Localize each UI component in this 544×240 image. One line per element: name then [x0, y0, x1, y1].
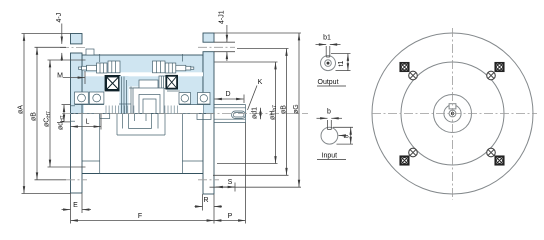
output ball bearing 1 [179, 93, 191, 105]
input ball bearing 2 [75, 92, 104, 105]
dimension øH h7 [215, 62, 279, 164]
small roller bearing beside right key [159, 76, 166, 89]
lower half: output bearing hub [197, 114, 211, 120]
label Input [317, 153, 346, 160]
right flange plate øG (sectioned, blue, with bolt hole gap) [203, 33, 214, 114]
svg-text:S: S [228, 179, 233, 186]
svg-text:t: t [344, 136, 351, 138]
flange mounting hole squares 4-J1 [400, 63, 503, 165]
gear train shafts (vertical machinery lines) [119, 77, 180, 114]
dimension b1 [316, 35, 341, 45]
svg-text:F: F [138, 213, 142, 220]
front keyway slot [449, 104, 456, 109]
dimension R [195, 194, 223, 211]
svg-text:øB: øB [281, 105, 288, 114]
left key cross-section (black X square) [106, 76, 120, 90]
right grease fitting bolt [153, 61, 194, 73]
svg-text:Output: Output [318, 79, 339, 86]
dimension øB left (bolt circle) [31, 47, 67, 180]
spigot circle øH [401, 62, 504, 165]
bolt hole centerline left flange (top and bottom) [60, 48, 87, 180]
flange outer circle øG [372, 33, 533, 194]
main axis centerline [62, 113, 308, 115]
dimension E [62, 193, 92, 213]
input ball bearing 1 [75, 92, 89, 104]
leader K (keyway) [248, 79, 263, 110]
breather plug on housing top [86, 49, 94, 55]
output shaft end circle [321, 56, 336, 71]
gear hub strip beside left key [120, 76, 129, 114]
front view horizontal centerline [372, 113, 537, 115]
svg-text:4-J: 4-J [56, 13, 63, 23]
svg-text:R: R [203, 197, 208, 204]
dimension P [214, 123, 246, 224]
lower half: right flange legs [203, 114, 214, 195]
output shaft boss and shaft [214, 105, 246, 123]
svg-text:E: E [73, 202, 78, 209]
svg-text:4-J1: 4-J1 [219, 10, 226, 24]
output keyway slot [326, 46, 330, 57]
tapped holes 4-J on spigot circle [409, 71, 496, 157]
shaft bore circle [444, 105, 461, 122]
input bore lines through left flange [71, 106, 76, 121]
svg-text:D: D [225, 91, 230, 98]
dimension ød H7 (input bore) [58, 105, 71, 130]
dimension 4-J (left flange holes) [56, 13, 63, 61]
svg-text:øHh7: øHh7 [270, 105, 279, 120]
svg-text:K: K [258, 79, 263, 86]
svg-text:øG: øG [293, 104, 300, 114]
hub circle [434, 95, 472, 133]
dimension ød1 (shaft) [252, 107, 261, 119]
gear teeth band [106, 106, 177, 114]
dimension L [71, 114, 102, 130]
dimension 4-J1 (right flange holes) [214, 10, 235, 61]
left flange plate øA (sectioned, blue, with bolt hole gap) [71, 34, 83, 114]
lower half outline: housing bottom [82, 114, 203, 174]
dimension b [317, 109, 343, 119]
dimension øB right (bolt circle) [213, 49, 289, 176]
label Output [317, 79, 346, 86]
svg-text:t1: t1 [338, 61, 345, 67]
svg-text:L: L [86, 119, 90, 126]
dimension øG (flange OD) [210, 33, 302, 187]
dimension t [333, 127, 353, 144]
output shaft keyway (side view slot) [232, 111, 246, 118]
central white gear channel [84, 72, 203, 113]
dimension øC H7 (spigot) [44, 60, 86, 167]
input keyway slot [328, 120, 332, 130]
dimension D [215, 91, 245, 103]
svg-text:øCH7: øCH7 [44, 111, 53, 127]
input bore circle [321, 127, 338, 144]
housing body (sectioned, blue) [82, 55, 203, 114]
svg-text:ød1: ød1 [252, 107, 259, 119]
housing joint lines [100, 54, 183, 62]
lower half: input bearing hub [100, 114, 110, 119]
left grease fitting bolt [79, 61, 121, 73]
center hole [449, 110, 456, 117]
dimension M [57, 71, 85, 84]
dimension t1 [331, 54, 351, 71]
svg-text:Input: Input [322, 153, 338, 160]
svg-text:b1: b1 [323, 35, 331, 42]
dimension F [71, 193, 215, 224]
front view vertical centerline [452, 28, 454, 200]
output ball bearing 2 [179, 93, 211, 105]
svg-text:øA: øA [18, 105, 25, 114]
svg-text:ødH7: ødH7 [58, 115, 67, 130]
svg-text:P: P [228, 213, 233, 220]
dimension øA [18, 34, 71, 194]
central coupling stepped block [133, 80, 164, 114]
svg-text:M: M [57, 73, 63, 80]
dimension S [216, 179, 236, 192]
right key cross-section (black X square) [166, 76, 177, 89]
bolt hole centerline right flange (top and bottom) [198, 47, 235, 180]
svg-text:b: b [327, 109, 331, 116]
svg-text:øB: øB [31, 112, 38, 121]
lower half: left flange legs [71, 114, 83, 194]
lower half: central coupling block [117, 114, 165, 136]
